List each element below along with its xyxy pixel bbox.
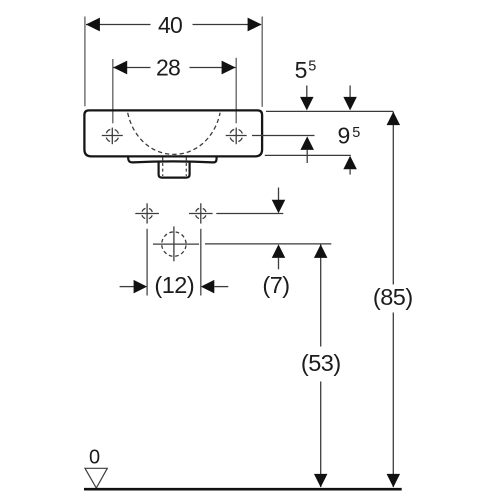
basin bowl hidden edge (dashed)	[128, 113, 220, 155]
arrow up to tap level	[300, 136, 314, 150]
arrow down at 350.1	[349, 86, 351, 99]
arrow up to drain level	[272, 244, 286, 258]
arrow up to basin top level	[387, 112, 401, 126]
svg-text:5: 5	[295, 57, 308, 83]
tap hole left	[102, 128, 123, 145]
dimension line (85)	[392, 112, 394, 285]
arrow up to basin bottom level	[343, 156, 357, 170]
svg-text:5: 5	[352, 125, 360, 141]
svg-text:0: 0	[89, 446, 100, 468]
svg-text:9: 9	[338, 123, 351, 149]
reference line basin top (right side)	[266, 110, 393, 112]
dimension (12)	[120, 229, 229, 298]
reference line drain level	[205, 243, 331, 245]
arrow right to left fixation line	[120, 286, 134, 288]
arrowhead 28 left	[113, 61, 127, 75]
arrow down at 306.8	[306, 86, 308, 99]
dimension (85)	[373, 112, 413, 488]
dimension 9_5	[300, 123, 360, 175]
drain spigot hidden edges (dashed)	[162, 157, 164, 176]
dimension 5_5	[295, 57, 357, 111]
reference line basin bottom level	[265, 154, 351, 156]
arrow up to drain level	[314, 244, 328, 258]
reference line fixation level	[216, 213, 283, 215]
extension line right of 28	[235, 58, 237, 124]
fixation hole left	[135, 203, 159, 223]
extension line below right fixation hole	[200, 229, 202, 296]
extension line below left fixation hole	[146, 229, 148, 296]
arrowhead 40 left	[86, 18, 100, 32]
svg-text:(7): (7)	[262, 272, 289, 298]
drain spigot	[159, 162, 190, 178]
dimension line (53)	[320, 244, 322, 347]
dimension 40	[85, 12, 262, 107]
svg-text:5: 5	[308, 59, 316, 75]
arrowhead 28 right	[222, 61, 236, 75]
extension line right of 40	[261, 17, 263, 107]
dimension line 28	[113, 67, 150, 69]
fixation hole right	[189, 203, 213, 223]
svg-text:(12): (12)	[154, 272, 194, 298]
reference line tap hole level	[252, 135, 315, 137]
dimension line 40	[86, 24, 151, 26]
dimension 28	[113, 54, 236, 123]
arrow left to right fixation line	[201, 280, 215, 294]
svg-text:40: 40	[158, 12, 182, 38]
apron below basin	[128, 156, 217, 162]
datum triangle	[85, 468, 107, 488]
washbasin outline	[84, 110, 262, 156]
svg-text:(53): (53)	[301, 350, 341, 376]
arrow down to ground	[387, 474, 401, 488]
svg-text:28: 28	[156, 54, 180, 80]
dimension (53)	[301, 244, 341, 488]
extension line left of 40	[84, 17, 86, 107]
tap hole right	[226, 128, 247, 145]
arrow down to fixation level	[278, 188, 280, 201]
dimension (7)	[262, 188, 289, 299]
extension line left of 28	[112, 59, 114, 123]
drain outlet circle	[153, 226, 199, 261]
svg-text:(85): (85)	[373, 284, 413, 310]
arrowhead 40 right	[248, 18, 262, 32]
ground line	[84, 488, 402, 491]
arrow down to ground	[314, 474, 328, 488]
